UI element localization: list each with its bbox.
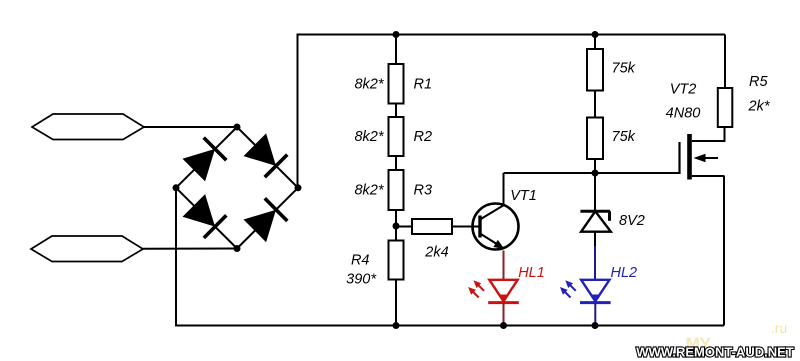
wire: bridge DC- down to bottom rail bbox=[175, 188, 177, 327]
wire: top rail to R1 and chain to 2k4 node bbox=[395, 35, 397, 65]
svg-text:8k2*: 8k2* bbox=[354, 76, 384, 92]
wire: R2 to R3 bbox=[395, 156, 397, 170]
svg-text:4N80: 4N80 bbox=[666, 106, 701, 122]
wire: top rail down to R5 bbox=[724, 35, 726, 89]
resistor R5 bbox=[718, 74, 771, 127]
resistor 75k (upper) bbox=[587, 49, 636, 91]
svg-text:R3: R3 bbox=[414, 183, 433, 199]
connector input 1 bbox=[32, 114, 144, 140]
node: bridge bottom (AC2) bbox=[234, 245, 241, 252]
wire: R1 to R2 bbox=[395, 104, 397, 118]
transistor VT1 (NPN) bbox=[473, 188, 537, 250]
node: R4 bottom rail junction bbox=[393, 322, 400, 329]
node: R3 / 2k4 / R4 junction bbox=[393, 223, 400, 230]
transistor VT2 (N-MOSFET 4N80) bbox=[666, 82, 725, 180]
resistor R4 bbox=[346, 226, 403, 326]
wire: collector rail to VT2 gate bbox=[504, 172, 680, 174]
svg-text:WWW.REMONT-AUD.NET: WWW.REMONT-AUD.NET bbox=[636, 345, 793, 360]
wire: VT2 source down right side to bottom rail bbox=[723, 176, 725, 326]
node: top rail / R1 junction bbox=[393, 31, 400, 38]
resistor R1 bbox=[354, 64, 432, 104]
zener diode 8V2 bbox=[580, 211, 644, 231]
svg-text:8V2: 8V2 bbox=[619, 213, 645, 229]
wire: VT1 emitter to HL1 (dark red) bbox=[503, 251, 505, 281]
svg-text:R2: R2 bbox=[414, 129, 433, 145]
connector input 2 bbox=[31, 236, 143, 262]
wire: bridge arm left-top bbox=[176, 127, 237, 188]
wire: connector 1 to bridge AC top node bbox=[144, 126, 237, 128]
svg-text:VT2: VT2 bbox=[670, 82, 697, 98]
node: bridge right (DC+) bbox=[295, 184, 302, 191]
wire: bridge arm bottom-right bbox=[237, 188, 298, 249]
svg-text:R5: R5 bbox=[749, 74, 768, 90]
svg-text:HL1: HL1 bbox=[518, 265, 545, 281]
svg-text:390*: 390* bbox=[346, 272, 377, 288]
wire: HL1 cathode to bottom rail (dark red) bbox=[503, 303, 505, 326]
node: bridge left (DC-) bbox=[173, 184, 180, 191]
svg-text:75k: 75k bbox=[612, 129, 636, 145]
wire: top rail to 75k bbox=[594, 35, 596, 50]
wire: 75k lower to junction bbox=[594, 159, 596, 173]
bridge diode (left to bottom arm) bbox=[183, 194, 216, 227]
node: HL2 bottom rail junction bbox=[592, 322, 599, 329]
wire: top rail from bridge + to R5 bbox=[298, 34, 726, 36]
svg-text:.ru: .ru bbox=[771, 320, 787, 336]
wire: R5 to VT2 drain bbox=[724, 127, 726, 142]
svg-text:8k2*: 8k2* bbox=[354, 129, 384, 145]
bridge diode (left to top arm) bbox=[183, 149, 216, 182]
svg-text:2k*: 2k* bbox=[748, 99, 771, 115]
LED HL1 (red) bbox=[468, 265, 545, 303]
wire: connector 2 to bridge AC bottom node bbox=[143, 248, 237, 250]
wire: VT1 collector up bbox=[503, 173, 505, 205]
bridge diode (top to right arm) bbox=[244, 133, 277, 166]
wire: HL2 cathode to bottom rail (navy) bbox=[594, 303, 596, 326]
svg-text:R4: R4 bbox=[351, 252, 370, 268]
node: HL1 bottom rail junction bbox=[500, 322, 507, 329]
resistor 2k4 (VT1 base) bbox=[396, 219, 479, 260]
wire: junction down to zener bbox=[594, 173, 596, 211]
svg-text:2k4: 2k4 bbox=[424, 244, 448, 260]
svg-text:VT1: VT1 bbox=[510, 188, 537, 204]
resistor R3 bbox=[354, 170, 432, 210]
wire: zener to HL2 (black then navy) bbox=[594, 232, 596, 247]
wire: bottom rail bbox=[176, 325, 724, 327]
bridge diode (bottom to right arm) bbox=[244, 210, 277, 243]
node: collector / 75k / zener / gate junction bbox=[592, 170, 599, 177]
resistor 75k (lower) bbox=[587, 118, 636, 160]
wire: bridge DC+ up to top rail bbox=[297, 34, 299, 188]
wire: 75k upper to lower bbox=[594, 91, 596, 118]
wire: bridge arm top-right bbox=[237, 127, 298, 188]
LED HL2 (blue) bbox=[560, 265, 637, 303]
svg-text:HL2: HL2 bbox=[610, 265, 637, 281]
wire: R3 to junction node bbox=[395, 210, 397, 228]
node: bridge top (AC1) bbox=[234, 124, 241, 131]
resistor R2 bbox=[354, 117, 432, 156]
svg-text:8k2*: 8k2* bbox=[354, 183, 384, 199]
wire: bridge arm left-bottom bbox=[176, 188, 237, 249]
node: top rail / 75k junction bbox=[592, 31, 599, 38]
svg-text:75k: 75k bbox=[612, 60, 636, 76]
svg-text:R1: R1 bbox=[414, 76, 433, 92]
